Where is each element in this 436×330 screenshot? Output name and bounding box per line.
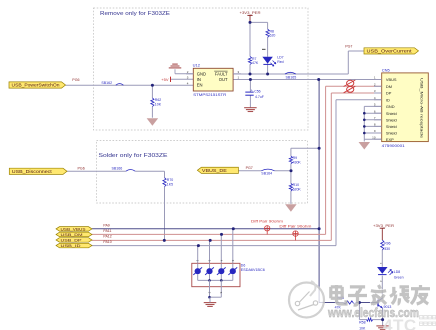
svg-text:4.7uF: 4.7uF — [255, 95, 264, 99]
svg-text:R9: R9 — [293, 156, 298, 160]
svg-text:PG7: PG7 — [345, 45, 352, 49]
svg-text:PA9: PA9 — [103, 223, 109, 227]
svg-text:R58: R58 — [359, 320, 365, 324]
svg-text:IN: IN — [197, 77, 201, 82]
svg-text:4TC: 4TC — [383, 316, 417, 330]
svg-text:R7: R7 — [252, 57, 257, 61]
svg-text:FAULT: FAULT — [215, 71, 228, 76]
svg-text:PG6: PG6 — [72, 78, 79, 82]
svg-text:+3V3_PER: +3V3_PER — [373, 223, 394, 228]
svg-text:Remove only for F303ZE: Remove only for F303ZE — [100, 11, 170, 17]
svg-text:USB_Disconnect: USB_Disconnect — [12, 169, 53, 174]
svg-text:CN5: CN5 — [382, 68, 391, 73]
svg-text:ESDA6V1BC6: ESDA6V1BC6 — [241, 268, 265, 272]
svg-text:R96: R96 — [384, 241, 390, 245]
svg-text:+3V3_PER: +3V3_PER — [240, 10, 261, 15]
svg-text:Shield: Shield — [386, 124, 397, 129]
svg-text:GND: GND — [197, 71, 206, 76]
svg-text:+5V: +5V — [161, 77, 169, 82]
svg-text:330: 330 — [384, 247, 390, 251]
svg-text:SB164: SB164 — [261, 171, 272, 175]
svg-text:VBUS_DE: VBUS_DE — [202, 168, 227, 173]
svg-text:EN: EN — [197, 82, 203, 87]
svg-text:USB_OverCurrent: USB_OverCurrent — [367, 49, 413, 54]
svg-text:620: 620 — [270, 34, 276, 38]
svg-text:Shield: Shield — [386, 117, 397, 122]
svg-text:SB162: SB162 — [101, 81, 112, 85]
svg-text:USB_PowerSwitchOn: USB_PowerSwitchOn — [12, 83, 61, 88]
svg-text:Shield: Shield — [386, 131, 397, 136]
svg-text:Red: Red — [277, 60, 283, 64]
svg-text:Shield: Shield — [386, 111, 397, 116]
svg-text:1K5: 1K5 — [167, 183, 173, 187]
svg-text:USB_DM: USB_DM — [61, 232, 83, 237]
svg-text:USB_VBUS: USB_VBUS — [61, 226, 86, 231]
svg-text:475900001: 475900001 — [382, 144, 405, 148]
svg-text:Solder only for F303ZE: Solder only for F303ZE — [99, 153, 168, 159]
svg-text:Diff Pair 90ohm: Diff Pair 90ohm — [279, 224, 311, 228]
svg-text:PG6: PG6 — [78, 166, 85, 170]
svg-text:430K: 430K — [293, 160, 302, 164]
svg-text:PA12: PA12 — [103, 235, 111, 239]
svg-text:STMPS2151STR: STMPS2151STR — [193, 93, 226, 97]
svg-text:C56: C56 — [254, 90, 260, 94]
svg-text:PA10: PA10 — [103, 240, 111, 244]
svg-text:ID: ID — [386, 97, 390, 102]
svg-text:R10: R10 — [293, 183, 299, 187]
svg-text:LD8: LD8 — [394, 270, 400, 274]
svg-text:10K: 10K — [155, 103, 162, 107]
svg-text:47K: 47K — [252, 61, 259, 65]
svg-text:R62: R62 — [155, 98, 161, 102]
svg-text:DM: DM — [386, 84, 392, 89]
svg-text:GND: GND — [386, 104, 395, 109]
svg-text:620K: 620K — [293, 188, 302, 192]
svg-text:USB_DP: USB_DP — [61, 237, 83, 242]
svg-text:U12: U12 — [193, 62, 201, 67]
svg-text:VBUS: VBUS — [386, 77, 397, 82]
svg-text:OUT: OUT — [219, 77, 228, 82]
svg-text:USB_Micro-AB receptacle: USB_Micro-AB receptacle — [420, 78, 424, 138]
svg-text:USB_ID: USB_ID — [61, 243, 81, 248]
svg-text:DP: DP — [386, 91, 392, 96]
svg-text:R70: R70 — [167, 178, 173, 182]
svg-text:+: + — [251, 88, 253, 92]
svg-text:Diff Pair 90ohm: Diff Pair 90ohm — [251, 220, 283, 224]
svg-text:SB166: SB166 — [112, 166, 123, 170]
svg-text:Green: Green — [394, 276, 404, 280]
svg-text:SB165: SB165 — [286, 75, 297, 79]
svg-text:PA11: PA11 — [103, 229, 111, 233]
svg-text:PG7: PG7 — [246, 166, 253, 170]
svg-text:EXP: EXP — [386, 137, 394, 142]
svg-text:10K: 10K — [359, 326, 366, 330]
svg-text:10: 10 — [372, 135, 376, 139]
